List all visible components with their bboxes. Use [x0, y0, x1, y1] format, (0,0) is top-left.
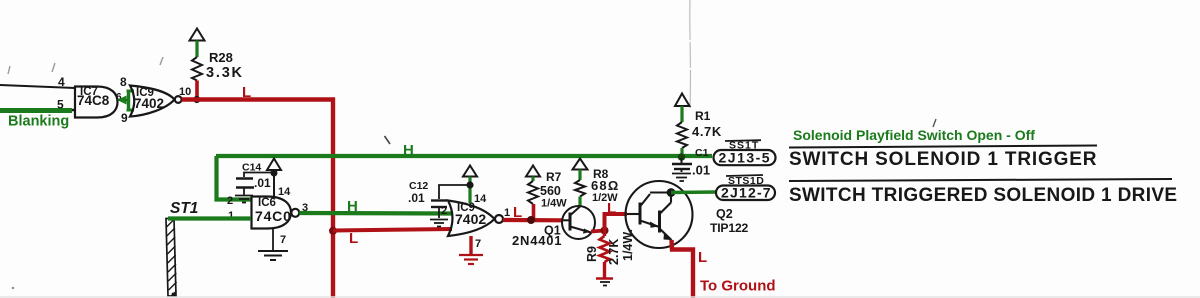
rule line 1	[789, 146, 1097, 148]
svg-text:L: L	[698, 249, 707, 266]
connector pill 2J12-7	[716, 186, 775, 201]
faint vertical pencil line top right	[689, 0, 692, 108]
svg-text:14: 14	[474, 193, 487, 205]
connector STS1D overline	[726, 175, 763, 176]
gate IC9 7402 (NOR) first	[130, 86, 182, 117]
resistor R28 3.3K	[192, 41, 202, 100]
resistor R8 68ohm 1/2W	[575, 170, 585, 207]
svg-text:7402: 7402	[455, 211, 486, 227]
svg-text:R1: R1	[695, 109, 711, 123]
resistor R1 4.7K	[677, 106, 687, 156]
wire green corner down to IC6 pin2	[217, 156, 252, 200]
svg-text:2.7K: 2.7K	[607, 239, 621, 265]
transistor Q2 TIP122	[626, 181, 693, 248]
svg-text:9: 9	[121, 111, 128, 125]
power arrow above R1	[675, 94, 690, 107]
capacitor C1 .01	[672, 158, 692, 172]
rule line 2	[789, 179, 1172, 181]
svg-text:2: 2	[227, 195, 233, 207]
svg-text:C1: C1	[695, 147, 709, 159]
wire net H top green horizontal	[216, 154, 712, 158]
svg-text:.01: .01	[692, 163, 710, 178]
svg-text:H: H	[403, 142, 414, 159]
node dot C14/pin14	[271, 170, 278, 177]
svg-text:L: L	[242, 84, 251, 101]
transistor Q1 2N4401	[562, 206, 595, 239]
svg-text:7402: 7402	[134, 96, 164, 111]
svg-text:R7: R7	[546, 170, 562, 184]
wire ST1 green to IC6 pin1	[168, 216, 251, 220]
wire input pin 4	[0, 75, 75, 89]
svg-text:14: 14	[278, 186, 291, 198]
power arrow above IC9b pin 14	[463, 166, 477, 177]
ground R9	[596, 279, 613, 286]
svg-text:.01: .01	[408, 191, 425, 205]
resistor R7 560 1/4W	[528, 177, 538, 221]
resistor R9 2.7K 1/4W red	[600, 231, 610, 278]
svg-text:5: 5	[57, 98, 64, 112]
wire net L red vertical	[331, 98, 335, 298]
svg-text:2J13-5: 2J13-5	[719, 149, 772, 165]
svg-text:TIP122: TIP122	[710, 221, 749, 235]
svg-text:1/4W: 1/4W	[541, 198, 567, 210]
wire green bracket pin6 to pins 8,9	[117, 90, 134, 111]
ground IC6	[258, 251, 288, 260]
bottom scan edge	[0, 296, 1200, 298]
svg-text:7: 7	[280, 234, 286, 246]
stray pen mark	[385, 136, 391, 144]
wire Q2 collector green to 2J12-7	[671, 190, 717, 194]
power arrow above IC6 pin 14	[267, 159, 281, 171]
power arrow above R28	[190, 29, 205, 41]
wire Q1 emitter red to node A	[591, 231, 605, 232]
wire net L3 IC9b out to Q1 base	[503, 218, 563, 223]
node junction at R28 / net L	[193, 96, 200, 103]
svg-text:4.7K: 4.7K	[692, 124, 722, 139]
node junction red at x333	[329, 227, 337, 235]
svg-text:74C8: 74C8	[77, 93, 110, 108]
ground IC9b red	[459, 255, 483, 264]
wire net L2 red to IC9b input	[333, 229, 452, 231]
node dot Q2 collector	[667, 188, 676, 197]
svg-text:L: L	[607, 200, 616, 217]
svg-text:8: 8	[120, 75, 127, 89]
svg-text:H: H	[347, 198, 358, 215]
svg-text:SWITCH SOLENOID 1 TRIGGER: SWITCH SOLENOID 1 TRIGGER	[789, 149, 1097, 170]
svg-text:L: L	[349, 230, 358, 247]
capacitor C12 .01	[431, 185, 468, 218]
svg-text:2J12-7: 2J12-7	[721, 185, 772, 201]
svg-text:.01: .01	[254, 176, 271, 190]
svg-text:ST1: ST1	[170, 200, 198, 217]
wire IC6 pin7 to ground	[272, 229, 274, 251]
svg-text:1: 1	[504, 207, 510, 219]
ground for C12	[430, 220, 448, 227]
wire red up-over to Q2 base	[605, 214, 628, 231]
op-amp gate IC7 74C8 (AND)	[75, 87, 127, 118]
connector SS1T overline	[725, 139, 761, 142]
svg-text:10: 10	[179, 86, 191, 98]
svg-text:Blanking: Blanking	[8, 114, 69, 130]
svg-text:SWITCH TRIGGERED SOLENOID 1 DR: SWITCH TRIGGERED SOLENOID 1 DRIVE	[789, 185, 1177, 206]
wire pin14 IC9b green	[468, 177, 471, 204]
svg-text:R9: R9	[585, 246, 599, 262]
ground for C14	[235, 196, 253, 203]
svg-text:560: 560	[540, 184, 561, 198]
node junction R1/C1 on H line	[678, 153, 686, 161]
svg-text:L: L	[513, 204, 522, 221]
connector hatched bar ST1	[166, 219, 177, 297]
connector pill 2J13-5	[714, 150, 776, 165]
node junction R7 on L3	[527, 216, 535, 224]
wire Blanking input pin 5	[0, 98, 75, 112]
ground C1	[672, 174, 691, 182]
wire net L red horizontal from pin10	[182, 97, 335, 101]
svg-text:C14: C14	[242, 162, 261, 174]
gate IC9 7402 (NOR) second	[448, 201, 503, 237]
wire IC9b pin7 red to ground	[469, 236, 472, 254]
node dot C12/pin14	[466, 181, 473, 188]
svg-text:To Ground: To Ground	[700, 278, 776, 295]
svg-text:4: 4	[58, 75, 65, 89]
wire Q2 emitter red to ground	[672, 240, 694, 298]
svg-text:Q2: Q2	[716, 207, 733, 221]
gate IC6 74C0 (NAND)	[252, 197, 300, 229]
power arrow above R7	[526, 166, 540, 177]
svg-text:2N4401: 2N4401	[512, 233, 562, 248]
wire net H2 IC6 output green	[299, 211, 452, 216]
svg-text:7: 7	[475, 238, 481, 250]
svg-text:68Ω: 68Ω	[591, 178, 619, 193]
faint pencil marks top-left	[8, 57, 163, 74]
node A junction Q1e/R9/Q2b	[601, 227, 609, 235]
capacitor C14 .01	[236, 173, 274, 196]
svg-text:Solenoid Playfield Switch Open: Solenoid Playfield Switch Open - Off	[793, 127, 1035, 143]
svg-text:2: 2	[441, 205, 447, 217]
svg-text:R28: R28	[209, 50, 233, 65]
power arrow above R8	[573, 159, 588, 170]
svg-text:3.3K: 3.3K	[206, 65, 244, 81]
wire pin14 IC6	[273, 170, 275, 197]
svg-text:74C0: 74C0	[255, 208, 292, 224]
